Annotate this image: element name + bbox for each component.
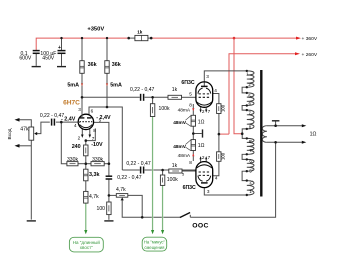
svg-text:0,22 - 0,47: 0,22 - 0,47 [130,87,155,93]
svg-text:На "длинный: На "длинный [73,239,101,245]
svg-text:100k: 100k [167,177,178,183]
svg-text:4,7k: 4,7k [89,194,99,200]
svg-text:330k: 330k [67,157,78,163]
svg-text:330k: 330k [92,157,103,163]
svg-text:1Ω: 1Ω [198,119,205,125]
svg-text:3,3k: 3,3k [89,172,100,178]
svg-text:5: 5 [99,118,102,123]
svg-text:1': 1' [249,189,252,194]
svg-text:3: 3 [78,107,81,112]
svg-text:6П3С: 6П3С [183,185,196,191]
svg-text:ООС: ООС [192,223,208,230]
svg-text:Вход: Вход [7,128,13,139]
svg-text:1k: 1k [172,163,178,169]
svg-text:2': 2' [249,180,252,185]
svg-text:2: 2 [202,109,205,114]
svg-text:600V: 600V [19,56,31,62]
svg-text:0,22 - 0,47: 0,22 - 0,47 [126,161,151,167]
svg-text:8: 8 [189,160,192,165]
svg-text:100: 100 [220,104,225,112]
svg-text:5mA: 5mA [110,83,122,89]
svg-text:7: 7 [208,109,211,114]
svg-text:1k: 1k [172,87,178,93]
svg-text:3: 3 [207,189,210,194]
svg-text:хвост": хвост" [80,245,93,250]
svg-text:100k: 100k [159,106,170,112]
svg-text:36k: 36k [88,62,97,68]
svg-text:8': 8' [249,139,252,144]
svg-text:3: 3 [206,74,209,79]
svg-text:100: 100 [97,206,106,212]
svg-text:+: + [58,45,61,51]
svg-text:48mA: 48mA [178,153,191,159]
svg-text:+ 360V: + 360V [302,36,318,42]
svg-text:6': 6' [249,158,252,163]
svg-text:1Ω: 1Ω [310,132,317,138]
svg-text:48mV: 48mV [173,144,187,150]
svg-text:+350V: +350V [87,27,104,33]
svg-text:2: 2 [202,155,205,160]
svg-text:8: 8 [189,102,192,107]
svg-text:240: 240 [72,144,81,150]
svg-text:+ 260V: + 260V [302,52,318,58]
svg-text:5: 5 [189,91,192,96]
svg-text:48mA: 48mA [178,107,191,113]
svg-text:100: 100 [220,152,225,160]
svg-text:47k: 47k [20,127,29,133]
svg-text:4,7k: 4,7k [116,187,126,193]
svg-text:7: 7 [92,136,95,141]
svg-text:-10V: -10V [91,142,103,148]
svg-text:4: 4 [74,123,77,128]
svg-text:7': 7' [249,148,252,153]
svg-text:8: 8 [93,128,96,133]
svg-text:7: 7 [208,155,211,160]
svg-text:- 2,4V: - 2,4V [61,117,76,123]
svg-text:5mA: 5mA [67,83,79,89]
svg-text:2: 2 [78,135,81,140]
svg-text:0,22 - 0,47: 0,22 - 0,47 [117,175,142,181]
svg-text:36k: 36k [112,62,121,68]
svg-text:4: 4 [215,176,218,181]
svg-text:6: 6 [91,109,94,114]
svg-text:1k: 1k [137,29,143,34]
svg-text:смещения: смещения [144,245,164,250]
svg-text:48mV: 48mV [173,120,187,126]
svg-text:6П3С: 6П3С [181,80,194,86]
svg-text:5': 5' [249,169,252,174]
svg-text:4: 4 [214,88,217,93]
svg-text:450V: 450V [42,56,54,62]
svg-text:6Н7С: 6Н7С [63,100,80,107]
svg-text:1Ω: 1Ω [198,143,205,149]
